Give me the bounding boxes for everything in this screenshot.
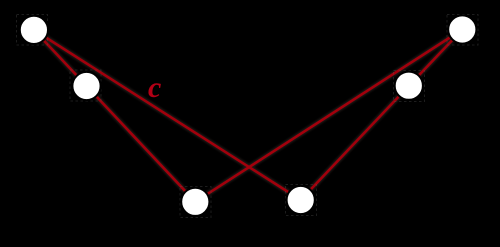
wire edge 1-4 <box>34 30 301 200</box>
selection box node 4 <box>286 185 317 216</box>
wire edge 6-5-4 <box>301 30 463 201</box>
node 3 <box>181 188 209 216</box>
node 6 <box>448 15 476 43</box>
selection box node 3 <box>180 187 211 218</box>
selection box node 1 <box>17 15 48 46</box>
edge halo glow <box>34 30 462 202</box>
selection box node 2 <box>70 70 101 101</box>
node 5 <box>395 72 423 100</box>
node 4 <box>287 186 315 214</box>
node 1 <box>20 16 48 44</box>
node 2 <box>72 72 100 100</box>
selection box node 5 <box>394 71 425 102</box>
svg-text:c: c <box>148 71 161 104</box>
selection box node 6 <box>447 15 478 46</box>
wire edge 1-2-3 <box>34 30 195 202</box>
wire edge 6-3 <box>195 30 462 202</box>
